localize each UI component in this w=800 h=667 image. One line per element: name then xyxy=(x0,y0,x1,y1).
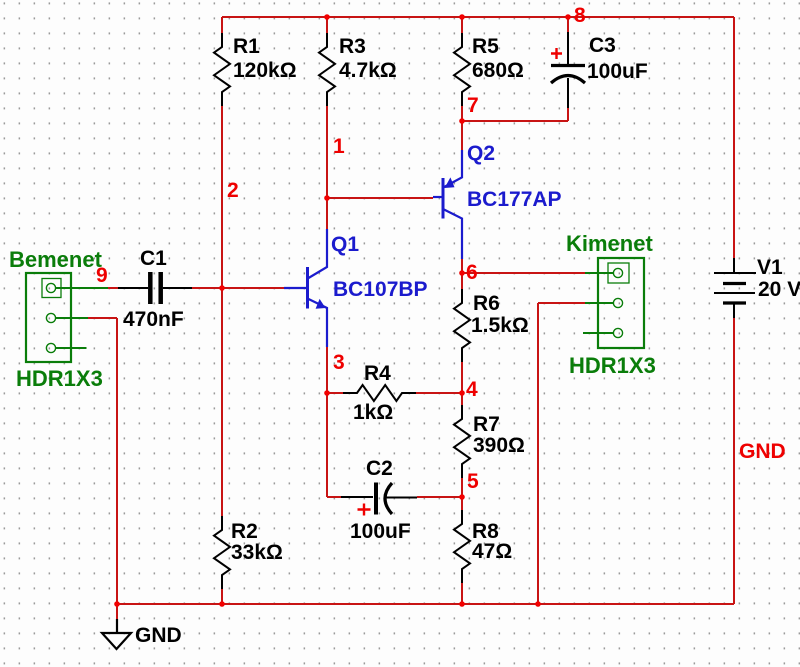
svg-text:V1: V1 xyxy=(757,256,783,279)
wire C1 to node 2 column xyxy=(192,287,222,289)
wire kimenet pin2 horizontal xyxy=(538,302,585,304)
resistor R7 xyxy=(454,405,525,478)
connector Kimenet HDR1X3 xyxy=(566,231,656,378)
svg-text:C3: C3 xyxy=(589,34,616,57)
svg-text:7: 7 xyxy=(467,94,479,117)
junction node 3 xyxy=(324,390,330,396)
svg-text:8: 8 xyxy=(574,4,586,27)
wire R5 to node 7 xyxy=(461,106,463,150)
wire ground stub xyxy=(116,604,118,619)
svg-text:R5: R5 xyxy=(472,35,499,58)
svg-text:R1: R1 xyxy=(233,35,260,58)
svg-text:470nF: 470nF xyxy=(123,308,184,331)
wire R8 bottom xyxy=(461,583,463,604)
wire node 7 to C3 xyxy=(462,120,568,122)
resistor R3 xyxy=(319,33,397,106)
wire bemenet pin1 to C1 xyxy=(108,287,118,289)
wire R3 top lead xyxy=(326,17,328,33)
wire to C2 left xyxy=(327,496,341,498)
capacitor C2 xyxy=(341,457,417,543)
svg-text:680Ω: 680Ω xyxy=(472,59,524,82)
svg-text:5: 5 xyxy=(467,470,479,493)
transistor Q2 xyxy=(433,142,562,259)
wire C3 bottom red xyxy=(567,108,569,121)
svg-text:20 V: 20 V xyxy=(758,278,800,301)
junction node 5 xyxy=(459,494,465,500)
resistor R4 xyxy=(343,362,416,424)
svg-text:4.7kΩ: 4.7kΩ xyxy=(339,59,397,82)
svg-text:R7: R7 xyxy=(473,413,500,436)
resistor R8 xyxy=(454,510,512,583)
svg-text:9: 9 xyxy=(96,264,108,287)
junction node 7 xyxy=(459,118,465,124)
junction R5 top xyxy=(459,14,465,20)
svg-text:120kΩ: 120kΩ xyxy=(233,59,297,82)
junction R8 bottom xyxy=(459,601,465,607)
resistor R1 xyxy=(214,33,297,106)
capacitor C1 xyxy=(118,247,192,331)
junction node 8 top xyxy=(565,14,571,20)
svg-text:BC107BP: BC107BP xyxy=(333,278,428,301)
svg-text:HDR1X3: HDR1X3 xyxy=(569,353,656,378)
connector Bemenet HDR1X3 xyxy=(9,247,108,391)
wire node 3 down to C2 xyxy=(326,393,328,497)
wire R6 to node 4 xyxy=(461,362,463,405)
wire R7 to node 5 xyxy=(461,478,463,510)
svg-text:HDR1X3: HDR1X3 xyxy=(16,366,103,391)
svg-text:R3: R3 xyxy=(339,35,366,58)
resistor R5 xyxy=(454,33,524,106)
svg-text:390Ω: 390Ω xyxy=(473,434,525,457)
wire node to R2 xyxy=(221,288,223,516)
junction node 1 xyxy=(324,195,330,201)
wire R3 to node 1 xyxy=(326,106,328,229)
svg-text:BC177AP: BC177AP xyxy=(467,188,562,211)
svg-text:47Ω: 47Ω xyxy=(472,540,512,563)
wire bottom rail xyxy=(117,603,734,605)
wire Q2 collector to node 6 xyxy=(461,259,463,289)
junction node 2 C1 xyxy=(219,285,225,291)
svg-text:2: 2 xyxy=(227,179,239,202)
svg-text:Q1: Q1 xyxy=(331,233,359,256)
junction R3 top xyxy=(324,14,330,20)
resistor R6 xyxy=(454,289,529,362)
wire C3 top lead xyxy=(567,17,569,32)
wire kimenet pin2 down xyxy=(537,303,539,604)
wire right rail lower xyxy=(733,318,735,604)
wire right rail upper xyxy=(733,17,735,258)
svg-text:33kΩ: 33kΩ xyxy=(231,541,283,564)
wire R1 to node xyxy=(221,106,223,288)
svg-text:1: 1 xyxy=(333,135,345,158)
wire R2 bottom xyxy=(221,589,223,604)
svg-text:C1: C1 xyxy=(140,247,167,270)
wire R1 top lead xyxy=(221,17,223,33)
battery V1 xyxy=(714,256,800,318)
svg-text:R4: R4 xyxy=(364,362,391,385)
wire input column xyxy=(116,318,118,604)
svg-text:1.5kΩ: 1.5kΩ xyxy=(471,314,529,337)
svg-text:R2: R2 xyxy=(231,520,258,543)
junction bottom left xyxy=(114,601,120,607)
svg-text:100uF: 100uF xyxy=(587,60,648,83)
wire top rail xyxy=(222,16,734,18)
svg-text:GND: GND xyxy=(739,440,786,463)
wire node 3 to R4 xyxy=(327,392,343,394)
wire C2 right to node 5 xyxy=(417,496,462,498)
ground xyxy=(102,619,182,649)
wire node to Q1 base xyxy=(222,287,284,289)
svg-text:100uF: 100uF xyxy=(350,520,411,543)
wire R4 to node 4 xyxy=(416,392,462,394)
junction kimenet bottom xyxy=(535,601,541,607)
junction R2 bottom xyxy=(219,601,225,607)
capacitor C3 xyxy=(551,32,648,108)
wire bemenet pin2 to column xyxy=(88,317,117,319)
resistor R2 xyxy=(214,516,283,589)
svg-text:6: 6 xyxy=(466,261,478,284)
svg-text:Q2: Q2 xyxy=(467,142,495,165)
wire node 6 to kimenet xyxy=(462,272,585,274)
junction node 6 xyxy=(459,270,465,276)
wire R5 top lead xyxy=(461,17,463,33)
svg-text:4: 4 xyxy=(466,378,478,401)
wire Q1 emitter to node 3 xyxy=(326,347,328,393)
wire node 1 to Q2 base xyxy=(327,197,433,199)
junction node 4 xyxy=(459,390,465,396)
svg-text:GND: GND xyxy=(135,624,182,647)
svg-text:R6: R6 xyxy=(473,292,500,315)
svg-text:Bemenet: Bemenet xyxy=(9,247,103,272)
svg-text:3: 3 xyxy=(333,351,345,374)
transistor Q1 xyxy=(284,229,428,347)
svg-text:C2: C2 xyxy=(366,457,393,480)
svg-text:1kΩ: 1kΩ xyxy=(353,401,393,424)
svg-text:Kimenet: Kimenet xyxy=(566,231,653,256)
